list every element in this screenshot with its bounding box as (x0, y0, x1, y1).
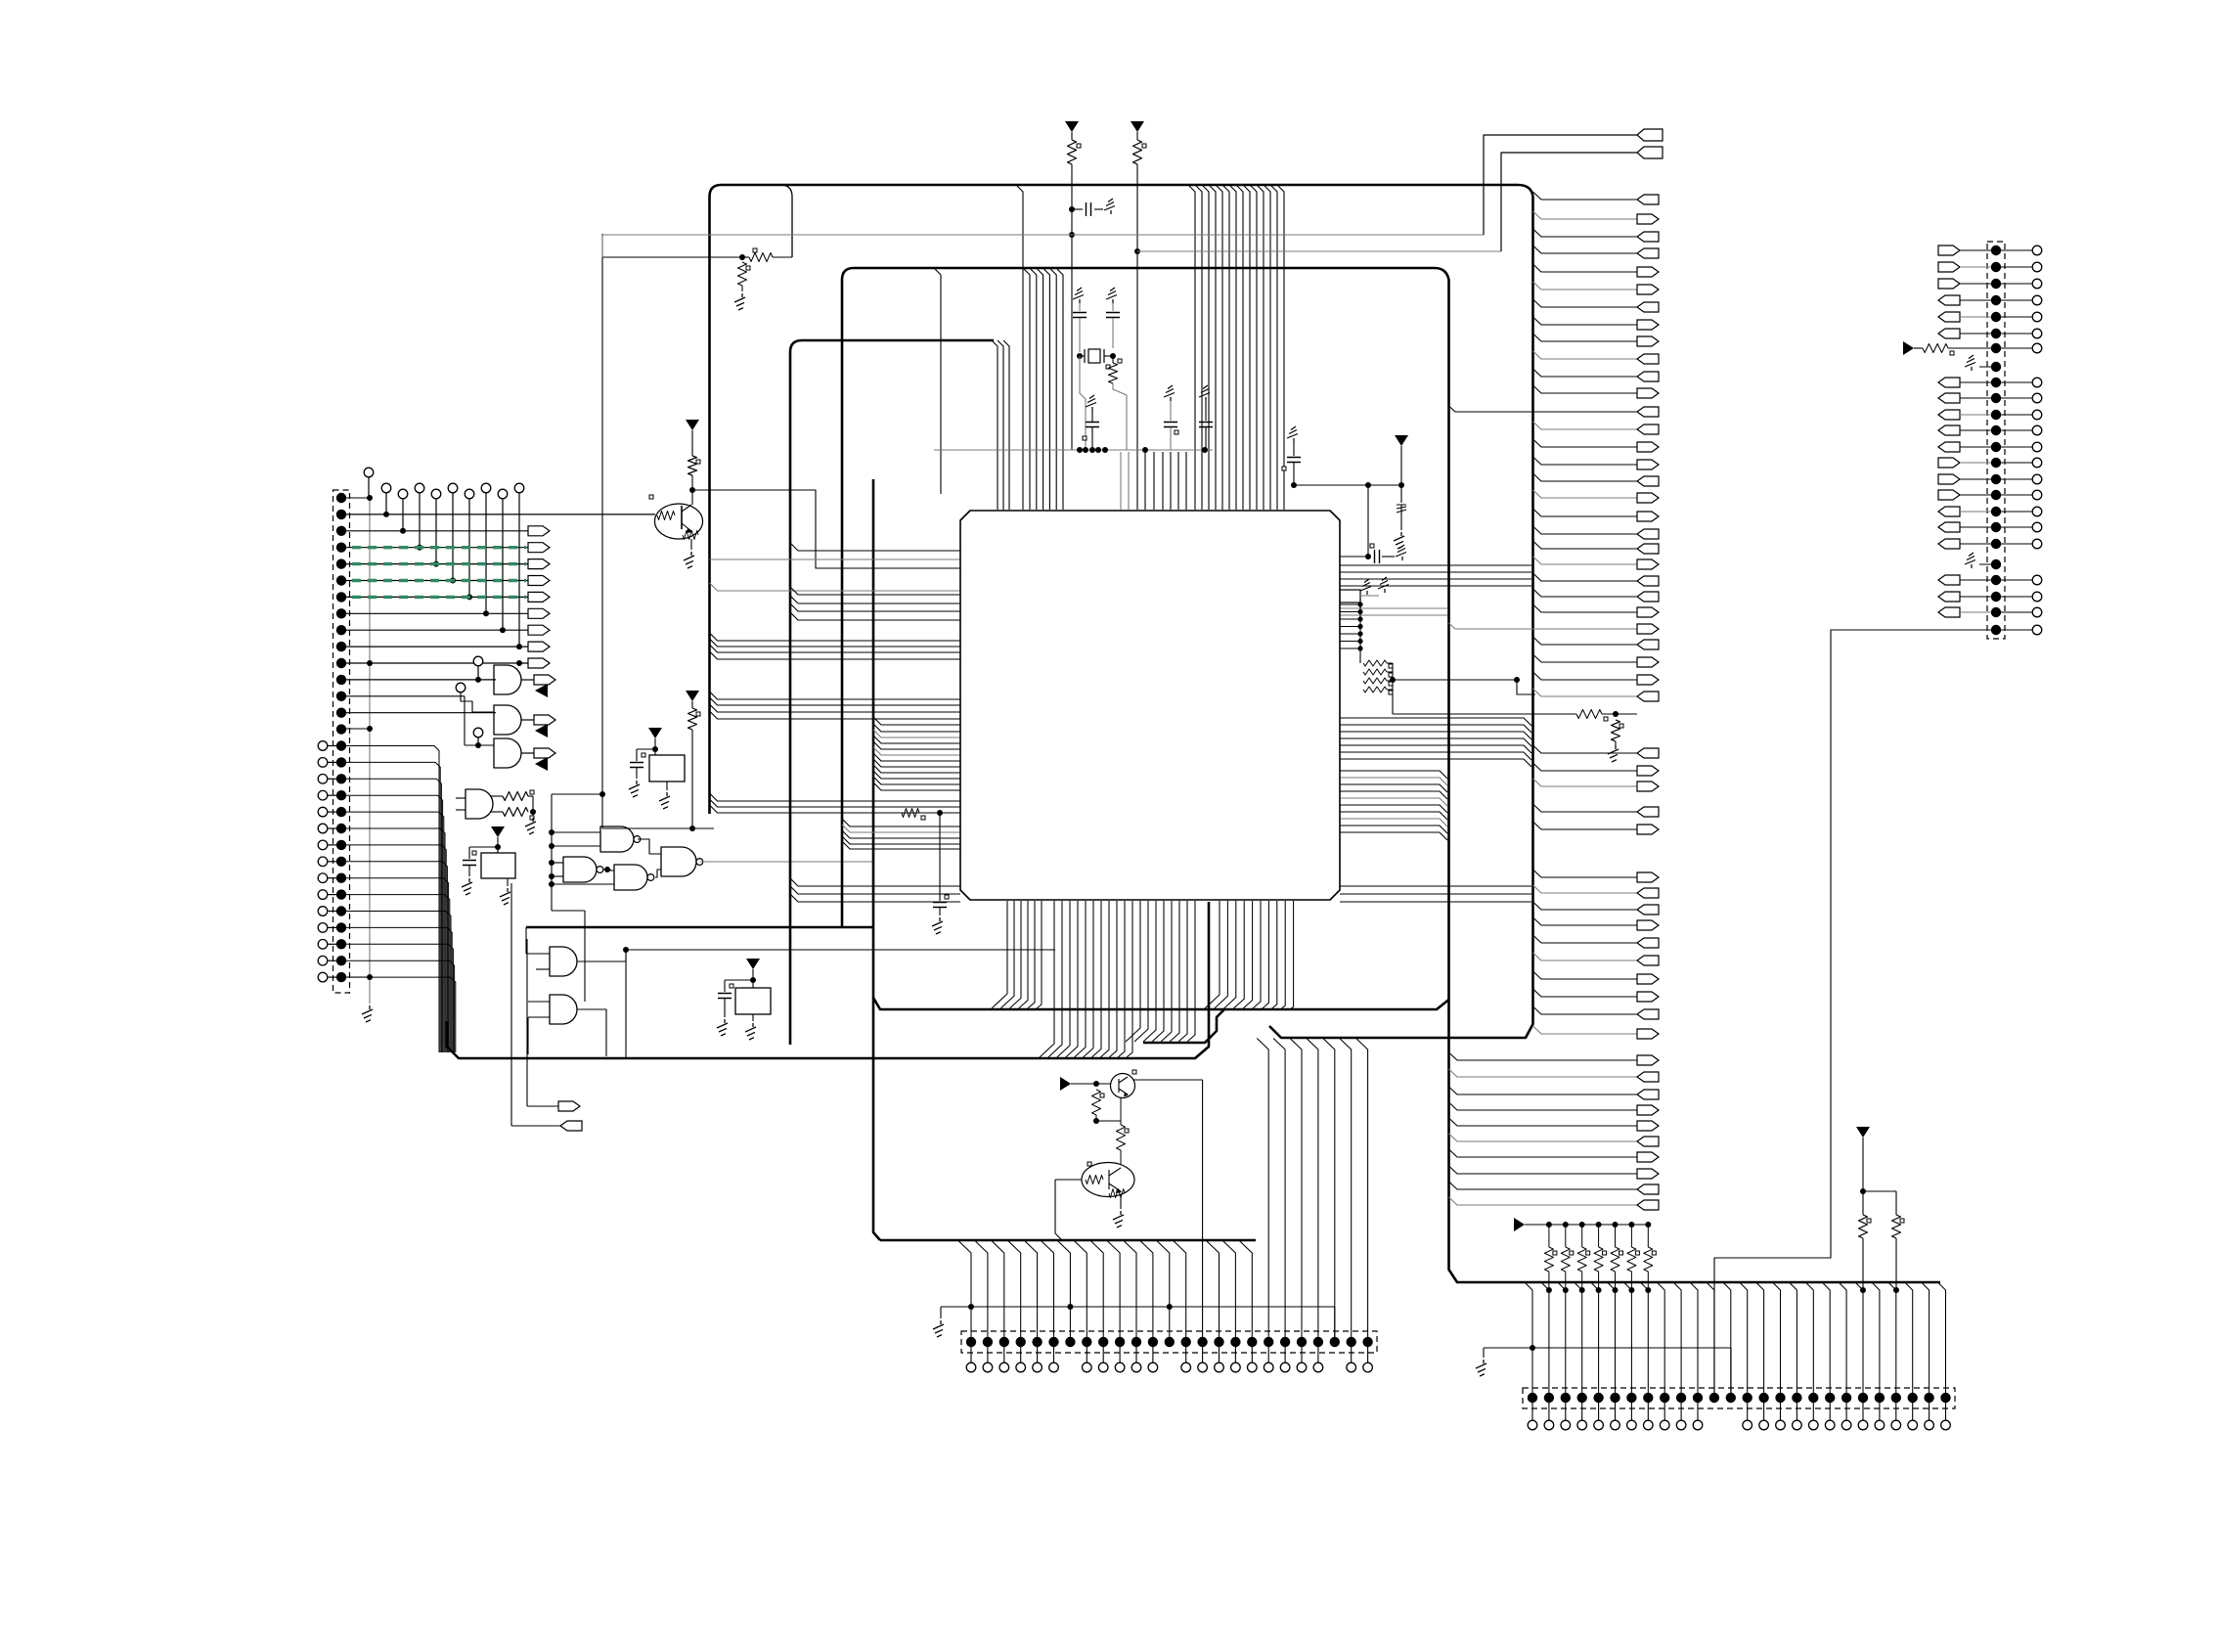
flag G1 output (521, 675, 555, 685)
capacitor C22 (718, 980, 753, 1017)
bus line top single (1016, 185, 1023, 510)
bus edge jog (1143, 1009, 1224, 1043)
connector CN3 bottom circles (966, 1347, 1372, 1372)
wire row13 jog (346, 695, 465, 697)
arrow G1 (535, 684, 548, 697)
wire net2 (1134, 248, 1501, 254)
resistor R16 (739, 248, 792, 262)
wire net R16 (602, 256, 742, 258)
ground C1 (1104, 199, 1115, 214)
wire row12 to gate G1 (346, 677, 496, 683)
connector CN2 right circles (2001, 246, 2042, 635)
transistor Q2 (1082, 1162, 1134, 1198)
capacitor C21 (630, 749, 655, 779)
bus fan IC bottom C (1126, 901, 1195, 1042)
wire jog A (552, 791, 605, 911)
bus staircase CN1 lower rows (346, 746, 456, 1053)
resistor R3 (1109, 356, 1118, 383)
capacitor C7 (1282, 426, 1301, 485)
IC U3 (735, 988, 771, 1014)
resistor R12 (688, 708, 701, 828)
CN1 top pin circles and drop wires (381, 483, 524, 649)
flag terminals left block (528, 526, 550, 668)
bus fan left B2 (842, 819, 960, 849)
ground R5 (1608, 745, 1619, 762)
connector CN2 body (1987, 242, 2005, 639)
wire CN4 gnd rail (1484, 1345, 1731, 1398)
bus fan IC bottom D (1205, 901, 1294, 1008)
resistor R15 (1923, 344, 1991, 356)
ground C20 (462, 878, 472, 895)
power flag Q3 (686, 420, 699, 456)
bus fan left A (710, 583, 961, 813)
bus fan left C2 (790, 878, 960, 902)
bus loop A (710, 185, 1533, 1038)
connector CN1 pins (336, 493, 346, 983)
wire row1 stub (346, 497, 370, 499)
resistor R2 (1133, 140, 1147, 510)
NAND gate U4C (549, 865, 654, 890)
bus fan left B (873, 717, 960, 790)
power flag R12 (686, 691, 699, 708)
ground U2 (500, 878, 510, 905)
bus bottom edge (447, 902, 1209, 1058)
IC U1 (649, 755, 685, 781)
flag G2 output (521, 715, 555, 725)
resistor R6 (1092, 1090, 1122, 1124)
wire bus jog (780, 185, 792, 257)
ground R17 (734, 293, 745, 310)
NAND gate U4D (638, 839, 703, 877)
green dashed sense lines (352, 548, 526, 598)
wire row2 to Q3 base (346, 513, 655, 515)
ground CN2b (1965, 553, 1996, 568)
resistor R1 (1068, 140, 1082, 450)
flag F2 (560, 1121, 582, 1131)
bus fan right D (1340, 771, 1447, 840)
resistor R14 (902, 809, 943, 821)
ground C21 (629, 781, 640, 797)
crystal Y1 (1077, 349, 1122, 369)
capacitor C1 (1069, 202, 1103, 216)
bus bundle top C (992, 340, 1009, 510)
flag column right middle (1533, 745, 1660, 1039)
resistor R9 (1863, 1191, 1904, 1293)
ground stubs (1360, 579, 1371, 604)
wire Q1 emitter (1120, 1097, 1122, 1125)
wire Q2 emitter (1120, 1196, 1122, 1209)
wire x962 (934, 268, 941, 494)
resistor R4 (1576, 710, 1637, 722)
bus fan right C (1340, 718, 1531, 767)
connector CN4 pins (1528, 1393, 1951, 1403)
resistor R5 (1612, 720, 1624, 745)
ground below CN1 (362, 1005, 373, 1022)
ground G4 (525, 818, 536, 834)
IC U10 main (960, 511, 1340, 900)
AND gate G6 (528, 995, 577, 1054)
resistor R11 (491, 808, 534, 821)
flag X2 (1501, 147, 1663, 251)
wire y847 rail (602, 826, 714, 831)
ground Q2 (1113, 1211, 1124, 1228)
resistor R13 (688, 456, 701, 490)
power flag P3 (1395, 435, 1408, 488)
CN1 signal rows to flags (346, 531, 528, 663)
bus CN3 rail (880, 1239, 1256, 1242)
resistor array RA1 (1363, 660, 1396, 694)
wire crystal a (1080, 356, 1086, 450)
capacitor C2 (1073, 303, 1087, 352)
NAND gate U4B (549, 857, 603, 882)
capacitor C6 (1199, 385, 1213, 450)
flag column right upper (1449, 192, 1660, 701)
bus loop C (790, 340, 994, 1045)
power flag P2 (1131, 121, 1144, 140)
power flag U3 (746, 959, 760, 988)
wire Q3 net right (692, 490, 960, 568)
IC U2 (472, 851, 515, 878)
AND gate G1 (473, 656, 521, 694)
connector CN4 body (1523, 1388, 1955, 1408)
resistor R17 (738, 262, 751, 291)
wire G5 out (577, 947, 629, 961)
bus bundle top D (1121, 452, 1186, 510)
bus fan right E (1340, 886, 1531, 902)
capacitor C5 (1164, 385, 1178, 450)
bus fan IC bottom B (1040, 901, 1132, 1057)
bus fan CN4 (1525, 1282, 1946, 1398)
IC right stub pins (1340, 602, 1363, 663)
wire U4D out (700, 861, 873, 863)
ground U3 (745, 1014, 756, 1040)
power flag U2 (491, 826, 505, 853)
bus risers CN3 (958, 1039, 1368, 1343)
ground C3 (1106, 288, 1117, 303)
flag X1 (1484, 129, 1663, 235)
flag F1 (558, 1101, 580, 1111)
connector CN4 bottom circles (1528, 1403, 1950, 1430)
wire left gray pair (710, 558, 961, 560)
resistor R10 (491, 790, 534, 801)
wire crystal b (1113, 383, 1127, 450)
capacitor C4 (1083, 395, 1099, 450)
wire crystal rail (934, 447, 1213, 453)
connector CN1 left pin circles (318, 741, 336, 982)
ground Q3 (684, 552, 694, 568)
wire Q3 emitter (690, 539, 692, 550)
wire CN2 to CN4 (1714, 630, 1996, 1398)
ground CN2a (1965, 355, 1996, 371)
transistor Q1 (1111, 1070, 1137, 1098)
wire net1 (602, 232, 1484, 257)
bus fan right B (1340, 608, 1447, 615)
wire G5 net (626, 950, 1055, 1058)
bus loop B top (842, 268, 1940, 1282)
bus fan IC bottom A (992, 901, 1042, 1008)
wire vertical A (601, 234, 603, 828)
bus loop B bottom (873, 479, 1449, 1240)
wire CN3 rail (941, 1304, 1335, 1342)
wire Q1 out (1133, 1080, 1203, 1342)
wire Q3 collector (689, 487, 695, 505)
connector CN2 left flags (1938, 246, 1991, 617)
wire net5 (1393, 677, 1535, 694)
AND gate G2 (456, 683, 521, 735)
power flag P1 (1065, 121, 1079, 140)
arrow G3 (535, 757, 548, 771)
flag column right lower (1449, 1052, 1660, 1210)
power flag P5 (1903, 341, 1923, 355)
wire G6 out (577, 1009, 606, 1056)
AND gate G5 (526, 927, 577, 976)
diode D1 (1394, 485, 1406, 549)
bus bundle top A (1188, 185, 1284, 510)
capacitor C20 (463, 847, 498, 876)
AND gate G4 (456, 789, 493, 819)
wire R10-R11 join (528, 796, 536, 816)
wire net4 (1339, 485, 1406, 563)
wire U4 down (552, 911, 585, 1002)
resistor R8 (1859, 1191, 1872, 1293)
bead FB1 (1339, 577, 1389, 603)
AND gate G3 (465, 696, 521, 768)
ground CN3 (933, 1320, 944, 1337)
wire CN1 ground rail (346, 495, 373, 1004)
ground C23 (932, 917, 943, 934)
ground CN4 (1476, 1360, 1486, 1376)
CN1 extra top circle (364, 468, 522, 666)
input arrow Q1 (1060, 1077, 1112, 1091)
wire row14 to gate G2 (346, 712, 496, 714)
NAND gate U4A (549, 826, 641, 852)
flag G3 output (521, 748, 555, 758)
resistor array RA2 (1544, 1222, 1656, 1293)
connector CN3 body (961, 1331, 1377, 1353)
ground U1 (659, 781, 670, 809)
connector CN2 pins (1991, 246, 2001, 635)
connector CN1 body (333, 490, 350, 993)
power flag P4 (1856, 1127, 1870, 1194)
wire Q2 base (1055, 1180, 1082, 1240)
capacitor C23 (933, 813, 949, 915)
wire net6 (1393, 690, 1576, 714)
resistor R7 (1117, 1125, 1130, 1164)
input arrow RA2 (1514, 1218, 1648, 1231)
bus fan right A (1340, 565, 1531, 586)
capacitor C3 (1106, 303, 1120, 348)
bus fan left C (790, 543, 960, 620)
bus bundle top B (1023, 268, 1063, 510)
transistor Q3 (649, 495, 703, 540)
bus edge y948 (526, 926, 873, 929)
wire net3 (1291, 482, 1401, 488)
connector CN3 pins (966, 1337, 1373, 1347)
ground C2 (1073, 288, 1084, 303)
power flag U1 (648, 728, 662, 755)
wire to flag F1 (527, 939, 558, 1106)
ground C22 (717, 1019, 728, 1036)
wire to flag F2 (511, 883, 560, 1126)
arrow G2 (535, 724, 548, 737)
